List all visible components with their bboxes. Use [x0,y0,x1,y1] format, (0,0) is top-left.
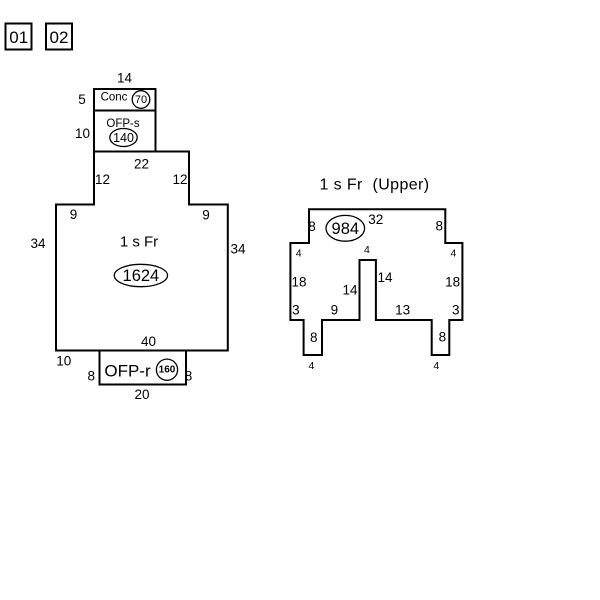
svg-text:8: 8 [435,219,443,234]
svg-text:140: 140 [113,131,134,145]
OFP-r porch outline [100,351,187,385]
svg-text:OFP-r: OFP-r [104,361,151,380]
svg-text:5: 5 [78,92,86,107]
svg-text:9: 9 [331,303,339,318]
area circle 160 [156,359,177,380]
area circle 70 [132,91,150,109]
svg-text:01: 01 [9,28,28,47]
area oval 140 [110,129,137,147]
svg-text:70: 70 [135,94,147,106]
svg-text:4: 4 [364,244,370,256]
svg-text:1624: 1624 [123,267,160,285]
svg-text:34: 34 [230,242,246,257]
area oval 984 [326,215,365,241]
svg-text:9: 9 [202,208,210,223]
svg-text:12: 12 [95,172,110,187]
svg-text:8: 8 [439,330,447,345]
main first-floor outline (1 s Fr) [56,152,228,351]
svg-text:10: 10 [75,126,90,141]
svg-text:18: 18 [291,275,306,290]
upper floor outline [290,209,462,355]
svg-text:40: 40 [141,334,156,349]
svg-text:02: 02 [50,28,69,47]
svg-text:4: 4 [433,360,439,372]
svg-text:12: 12 [172,172,187,187]
area oval 1624 [114,264,167,286]
svg-text:32: 32 [368,212,383,227]
svg-text:18: 18 [445,275,460,290]
page marker box 01 [6,24,32,50]
svg-text:1 s Fr: 1 s Fr [120,234,158,251]
Conc porch outline [94,89,156,111]
svg-text:8: 8 [310,330,318,345]
svg-text:Conc: Conc [101,92,128,104]
svg-text:3: 3 [292,303,300,318]
svg-text:8: 8 [308,219,316,234]
svg-text:4: 4 [296,248,302,260]
svg-text:22: 22 [134,157,149,172]
svg-text:14: 14 [377,270,393,285]
svg-text:3: 3 [452,303,460,318]
svg-text:13: 13 [395,303,410,318]
svg-text:8: 8 [185,369,193,384]
svg-text:1 s Fr (Upper): 1 s Fr (Upper) [319,176,429,193]
svg-text:10: 10 [56,354,71,369]
svg-text:20: 20 [134,387,149,402]
svg-text:984: 984 [332,220,360,238]
svg-text:34: 34 [30,236,46,251]
svg-text:14: 14 [117,71,133,86]
svg-text:8: 8 [88,369,96,384]
svg-text:9: 9 [70,207,78,222]
svg-text:14: 14 [342,283,358,298]
svg-text:160: 160 [159,365,176,376]
svg-text:4: 4 [308,360,314,372]
svg-text:4: 4 [450,248,456,260]
OFP-s porch outline [94,111,156,152]
page marker box 02 [46,24,72,50]
